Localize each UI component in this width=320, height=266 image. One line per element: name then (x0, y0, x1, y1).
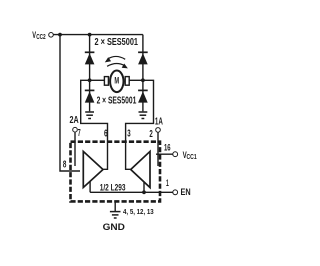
svg-text:16: 16 (164, 142, 171, 152)
svg-text:M: M (114, 76, 119, 86)
svg-text:CC2: CC2 (36, 32, 46, 41)
svg-text:2: 2 (149, 129, 153, 140)
svg-text:GND: GND (103, 222, 126, 232)
svg-text:2A: 2A (70, 115, 79, 126)
svg-text:EN: EN (181, 187, 191, 197)
svg-text:2 × SES5001: 2 × SES5001 (95, 37, 139, 48)
svg-text:8: 8 (63, 159, 67, 170)
svg-text:3: 3 (127, 128, 131, 139)
svg-text:CC1: CC1 (187, 152, 197, 161)
svg-text:4, 5, 12, 13: 4, 5, 12, 13 (123, 207, 154, 216)
svg-text:6: 6 (104, 128, 108, 139)
svg-text:2 × SES5001: 2 × SES5001 (97, 95, 137, 106)
svg-text:1A: 1A (155, 116, 163, 127)
svg-text:1/2 L293: 1/2 L293 (100, 183, 126, 193)
svg-text:1: 1 (166, 178, 169, 189)
svg-text:7: 7 (78, 128, 81, 139)
